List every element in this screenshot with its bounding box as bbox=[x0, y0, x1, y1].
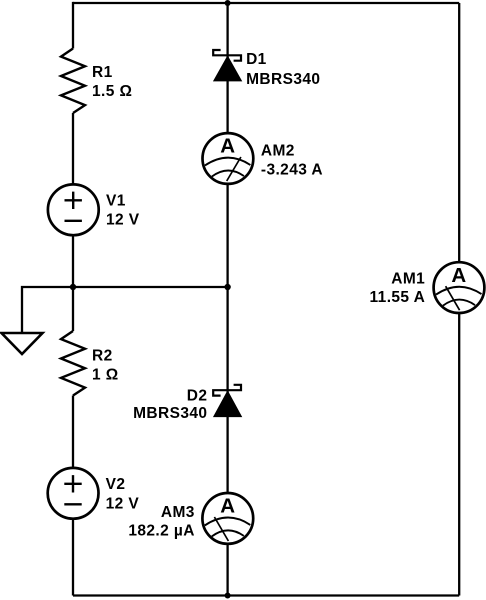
svg-text:MBRS340: MBRS340 bbox=[133, 405, 207, 422]
svg-text:11.55 A: 11.55 A bbox=[370, 289, 426, 306]
svg-text:A: A bbox=[220, 495, 235, 518]
junction dot left node bbox=[70, 284, 76, 290]
ammeter AM1 bbox=[434, 262, 485, 313]
junction dot middle node bbox=[224, 284, 230, 290]
svg-text:R1: R1 bbox=[92, 64, 113, 81]
svg-text:182.2 µA: 182.2 µA bbox=[128, 523, 194, 540]
svg-text:MBRS340: MBRS340 bbox=[246, 71, 320, 88]
diode D2 bbox=[213, 385, 241, 417]
ammeter AM2 bbox=[203, 133, 254, 184]
resistor R1 bbox=[61, 49, 85, 114]
svg-text:A: A bbox=[451, 264, 466, 287]
voltage source V2 bbox=[48, 468, 99, 519]
wire ground stub bbox=[22, 287, 73, 333]
svg-text:12 V: 12 V bbox=[106, 495, 140, 512]
junction dot top bbox=[225, 0, 231, 6]
voltage source V1 bbox=[48, 184, 99, 235]
diode D1 bbox=[213, 50, 241, 81]
wire top horizontal bbox=[73, 2, 459, 4]
D2 triangle bbox=[214, 392, 241, 417]
svg-text:D2: D2 bbox=[187, 388, 208, 405]
wire right branch bbox=[458, 3, 460, 596]
svg-text:-3.243 A: -3.243 A bbox=[261, 162, 323, 179]
svg-text:AM2: AM2 bbox=[261, 142, 295, 159]
svg-text:AM1: AM1 bbox=[391, 271, 425, 288]
svg-text:A: A bbox=[220, 135, 235, 158]
D1 cathode bar (schottky) bbox=[213, 50, 241, 61]
D2 cathode bar (schottky) bbox=[213, 385, 241, 396]
svg-text:12 V: 12 V bbox=[106, 212, 140, 229]
svg-text:AM3: AM3 bbox=[161, 504, 195, 521]
svg-text:V1: V1 bbox=[106, 192, 126, 209]
svg-text:1.5 Ω: 1.5 Ω bbox=[92, 83, 132, 100]
wire middle node horizontal bbox=[73, 286, 228, 288]
ammeter AM3 bbox=[202, 493, 253, 544]
D1 triangle bbox=[214, 57, 241, 81]
wire middle branch bbox=[226, 3, 228, 596]
svg-text:R2: R2 bbox=[92, 348, 113, 365]
svg-text:1 Ω: 1 Ω bbox=[92, 366, 119, 383]
junction dot bottom bbox=[225, 593, 231, 599]
ground bbox=[2, 333, 43, 354]
wire left branch bbox=[72, 2, 74, 596]
svg-text:V2: V2 bbox=[106, 476, 126, 493]
wire bottom horizontal bbox=[73, 594, 459, 596]
resistor R2 bbox=[61, 331, 85, 396]
svg-text:D1: D1 bbox=[246, 51, 267, 68]
